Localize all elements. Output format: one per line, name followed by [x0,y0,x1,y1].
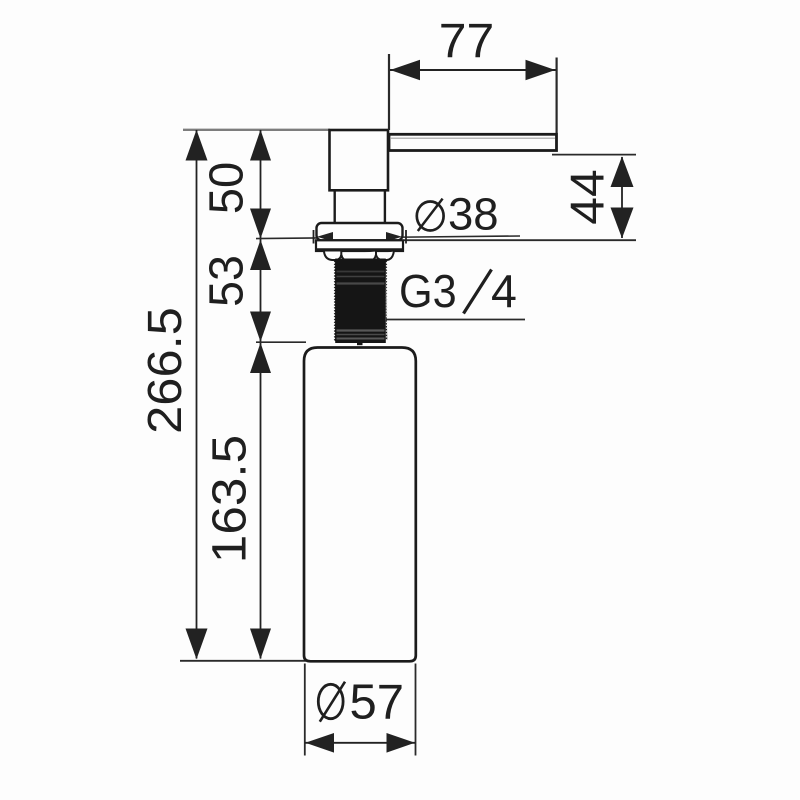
pump neck [335,191,385,224]
svg-text:4: 4 [491,265,517,317]
chain bowtie arrows at bottle top level [250,312,271,342]
svg-text:50: 50 [200,162,254,214]
label G3/4 [399,265,517,318]
svg-text:77: 77 [439,15,495,68]
svg-text:266.5: 266.5 [138,307,192,434]
dimension 77: left arrowhead [390,60,420,80]
svg-text:163.5: 163.5 [202,435,256,563]
flange lower plate [316,240,403,251]
flange top plate [317,223,403,240]
dimension 77: dimension line [390,69,556,71]
266.5 up arrowhead [186,130,208,161]
O38 extension tick right [405,230,407,244]
266.5 down arrowhead [186,629,208,660]
O57 dimension line [305,742,415,744]
flange lower plate thick bottom edge [316,248,403,251]
O57 extension line left [304,664,306,756]
O38 dimension left arrowhead [317,232,333,242]
O38 extension tick left [313,230,315,244]
bottle body [304,348,416,662]
threaded shank (G3/4) [334,259,388,346]
dimension 44: extension line top (from spout) [552,154,636,156]
thread ridge highlights [337,271,385,273]
chain up arrowhead top [250,130,271,161]
extension line at bottle bottom [180,660,306,662]
dimension 77: extension line left (above head) [388,54,390,130]
dimension 44: dimension line [621,157,623,238]
dimension 44: extension line bottom [404,239,636,241]
chain down arrowhead bottom [250,629,271,660]
O57 right arrowhead [387,733,415,753]
dimension 44: down arrowhead [611,208,634,239]
O57 extension line right [415,664,417,756]
small stub below thread [357,342,363,345]
extension line top-left (product top level) [183,129,330,131]
left dimension line 50/53/163.5 chain [260,130,262,659]
extension line at flange level going right (under O38 text) [256,236,520,239]
label O57 [318,676,404,730]
O57 left arrowhead [305,733,334,753]
svg-text:G3: G3 [399,265,457,318]
left dimension line 266.5 [196,130,198,659]
svg-text:44: 44 [562,169,614,224]
label O38 [417,189,499,240]
svg-text:53: 53 [200,255,254,307]
dimension 77: extension line right [555,58,557,134]
dimension 77: right arrowhead [526,60,556,80]
leader line under G3/4 [386,319,525,321]
chain bowtie arrows at flange level [250,209,271,239]
O38 dimension right arrowhead [386,232,402,242]
dimension 44: up arrowhead [611,156,634,187]
pump head body [330,130,389,190]
svg-text:57: 57 [350,676,405,730]
spout [389,134,557,150]
extension line at bottle-top level [256,341,306,343]
svg-text:38: 38 [448,189,499,240]
lock nut lobes [324,252,394,262]
